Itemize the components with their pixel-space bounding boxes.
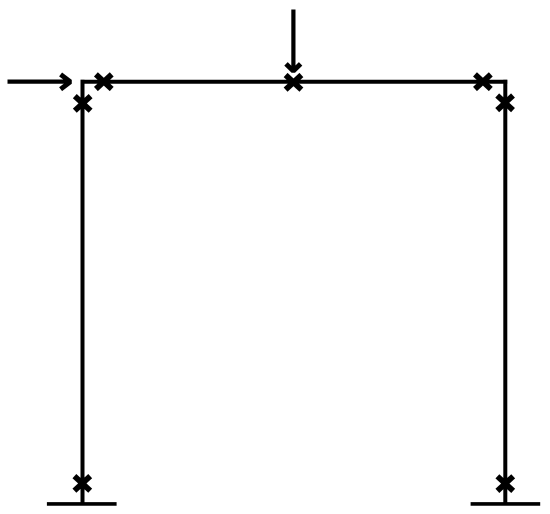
vertical load arrow head [286,64,301,71]
plastic hinge X at left column base [74,476,90,491]
horizontal load arrow shaft [8,79,67,83]
plastic hinge X on beam right of left corner [96,74,112,89]
horizontal load arrow head [61,74,71,89]
plastic hinge X at right column base [497,476,513,491]
plastic hinge X on right column below corner [497,96,513,111]
right support base line [471,502,541,506]
plastic hinge X at beam midspan under load [286,75,302,90]
beam (top girder of portal frame) [81,80,508,84]
left support base line [47,502,117,506]
left column [81,80,85,505]
plastic hinge X on beam left of right corner [475,74,491,89]
right column [503,80,507,505]
vertical load arrow shaft [291,10,295,69]
plastic hinge X on left column below corner [75,96,91,111]
